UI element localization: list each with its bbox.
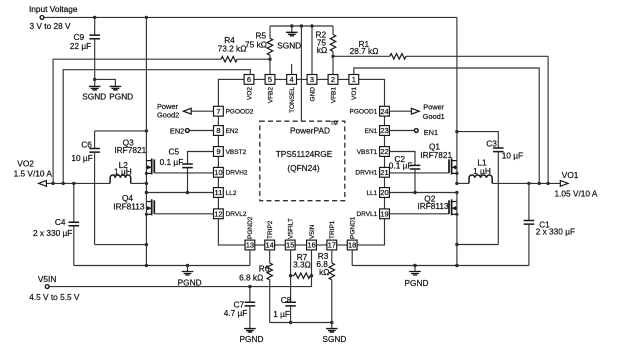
svg-text:DRVL1: DRVL1 [356,211,377,218]
capacitor C1 [524,183,575,265]
wire PGND rail right [352,265,529,267]
ground SGND (input) [82,79,106,101]
svg-text:3: 3 [310,75,314,84]
junction C4 tap [72,182,75,185]
junction LL2/VO2 line [145,182,148,185]
wire DRVH1 (pin 21) [389,172,449,174]
wire SGND rail to PowerPAD [300,26,302,121]
svg-text:VBST1: VBST1 [357,149,378,156]
junction C8/SGND line [289,321,292,324]
wire VO2 sense (pin 6) [63,70,250,184]
wire R1 to VO1 [547,56,549,183]
svg-text:TONSEL: TONSEL [289,87,296,113]
ground PGND (right rail) [405,264,429,288]
junction C5/LL2 [186,191,189,194]
node EN1 [389,128,438,137]
capacitor C6 [71,131,100,245]
capacitor C9 [70,17,100,79]
svg-text:DRVL2: DRVL2 [226,211,247,218]
junction R4 tap [51,182,54,185]
svg-text:VFB2: VFB2 [267,87,274,104]
wire LL1 (pin 20) [389,192,457,194]
svg-text:VO1: VO1 [562,170,579,180]
svg-text:8: 8 [216,126,220,135]
resistor R7 [291,250,312,279]
svg-text:1: 1 [352,75,356,84]
svg-text:11: 11 [215,188,223,197]
svg-text:75 kΩ: 75 kΩ [245,40,267,50]
junction R2/R1/VFB1 [331,55,334,58]
svg-text:4: 4 [290,75,294,84]
resistor R6 [239,250,272,323]
svg-text:1.05 V/10 A: 1.05 V/10 A [555,188,598,198]
svg-text:VO2: VO2 [246,87,253,100]
pin 5 VFB2 (top) [265,75,275,104]
transistor Q3 IRF7821 [145,158,155,175]
node VO2 terminal [14,158,53,186]
svg-text:23: 23 [380,126,388,135]
svg-text:PGND1: PGND1 [350,216,357,239]
wire input rail [44,16,457,18]
svg-text:19: 19 [380,210,388,219]
svg-text:Input Voltage: Input Voltage [29,4,78,14]
svg-text:SGND: SGND [82,92,106,102]
svg-text:EN1: EN1 [424,128,438,137]
junction R1 tap [546,182,549,185]
svg-text:5: 5 [268,75,272,84]
wire V5IN rail [49,250,311,287]
IC PowerPAD dashed box [260,121,345,201]
label Q1 [420,142,452,161]
wire DRVL1 (pin 19) [389,213,449,215]
junction R7 left [289,274,292,277]
ground PGND (input) [95,79,133,101]
svg-text:IRF7821: IRF7821 [114,145,146,155]
svg-text:7: 7 [216,107,220,116]
capacitor C8 [273,276,296,323]
pin 12 DRVL2 (left) [214,209,247,219]
pin 2 VFB1 (top) [328,75,338,104]
svg-text:EN2: EN2 [226,128,239,135]
junction SGND rail/PowerPAD [300,24,303,27]
svg-text:IRF8113: IRF8113 [113,201,145,211]
node Power Good2 [157,102,214,120]
pin 6 VO2 (top) [244,75,254,101]
junction C3/Q2 source [455,243,458,246]
pin 15 V5FILT (bottom) [285,218,295,250]
wire PGND1 (pin 18) [351,250,353,266]
pin 21 DRVH1 (right) [355,167,389,177]
junction pin1 tap [538,182,541,185]
wire SGND rail (top) [270,25,333,27]
label Q4 [113,193,145,212]
node Power Good1 [389,103,444,121]
svg-text:4.7 µF: 4.7 µF [224,308,248,318]
resistor R5 [245,26,273,75]
wire GND pin3 to rail [310,24,313,74]
svg-text:Good2: Good2 [157,111,179,120]
svg-text:1.5 V/10 A: 1.5 V/10 A [14,168,53,178]
svg-text:15: 15 [286,241,294,250]
wire VO1 sense (pin 1) [354,68,539,183]
node V5IN terminal [29,274,80,302]
wire Q3 drain [145,17,147,183]
junction Q3 source/LL2 [145,191,148,194]
pin 16 V5IN (bottom) [307,224,317,250]
label Q2 [417,194,449,211]
svg-text:C3: C3 [486,139,497,149]
wire PGND rail left [74,265,250,267]
wire C6 bottom branch [95,244,147,246]
wire VO2 sense to R4 [53,59,221,183]
svg-text:16: 16 [307,241,315,250]
junction Q2 source/PGND rail [455,264,458,267]
svg-text:PGND: PGND [109,92,133,102]
svg-text:18: 18 [348,241,356,250]
resistor R3 [316,250,334,323]
wire Q1 drain [456,17,458,183]
junction C2/LL1 [413,191,416,194]
junction C9 ground split [93,78,96,81]
pin 13 PGND2 (bottom) [245,216,255,250]
wire DRVL2 (pin 12) [154,213,213,215]
capacitor C4 [33,183,79,265]
svg-text:DRVH2: DRVH2 [226,170,248,177]
pin 20 LL1 (right) [366,188,389,198]
svg-text:DRVH1: DRVH1 [355,170,377,177]
svg-text:TM: TM [331,121,338,127]
svg-text:0.1 µF: 0.1 µF [389,161,413,171]
svg-text:3.3Ω: 3.3Ω [293,259,311,269]
junction R7 right [310,274,313,277]
svg-text:13: 13 [246,241,254,250]
svg-text:V5IN: V5IN [38,274,56,284]
junction C3/Q1 drain [455,130,458,133]
junction C1 tap [527,182,530,185]
pin 23 EN1 (right) [365,126,390,136]
svg-text:VBST2: VBST2 [226,149,247,156]
wire TONSEL stub [291,64,293,75]
pin 7 PGOOD2 (left) [214,106,254,116]
ground PGND (C7) [240,329,264,344]
pin 3 GND (top) [307,75,317,102]
ground PGND (left rail) [178,264,202,288]
svg-text:2: 2 [331,75,335,84]
junction V5IN/C7 [248,285,251,288]
svg-text:12: 12 [214,210,222,219]
junction input/Q3 drain [145,16,148,19]
svg-text:28.7 kΩ: 28.7 kΩ [350,46,379,56]
pin 8 EN2 (left) [214,126,239,136]
svg-text:VO2: VO2 [17,158,34,168]
capacitor C5 [160,147,214,193]
svg-text:kΩ: kΩ [319,267,329,277]
svg-text:C8: C8 [281,295,292,305]
svg-text:10 µF: 10 µF [71,153,92,163]
pin 19 DRVL1 (right) [356,209,389,219]
svg-text:1 µF: 1 µF [273,309,290,319]
svg-text:PGND: PGND [240,334,264,344]
svg-text:10 µF: 10 µF [502,151,523,161]
svg-text:PGND2: PGND2 [247,216,254,239]
svg-text:17: 17 [328,241,336,250]
svg-text:PGND: PGND [405,278,429,288]
svg-text:GND: GND [309,87,316,102]
pin 14 TRIP2 (bottom) [265,220,275,250]
svg-text:C5: C5 [169,147,180,157]
svg-text:9: 9 [216,147,220,156]
wire VO1 line [492,182,560,184]
IC U1 TPS51124RGE body outline [218,79,384,245]
resistor R1 [333,39,548,59]
svg-text:EN2: EN2 [170,127,184,136]
capacitor C3 [457,132,523,245]
svg-text:SGND: SGND [277,40,301,50]
wire SGND bottom line [270,322,332,324]
svg-text:SGND: SGND [322,334,346,344]
svg-text:C4: C4 [55,217,66,227]
svg-text:IRF7821: IRF7821 [420,150,452,160]
svg-text:6: 6 [247,75,251,84]
wire VO2 line [47,182,110,184]
svg-text:TPS51124RGE: TPS51124RGE [276,149,333,159]
svg-text:21: 21 [380,168,388,177]
svg-text:0.1 µF: 0.1 µF [160,157,184,167]
capacitor C7 [224,287,256,329]
svg-text:14: 14 [266,241,274,250]
svg-text:Good1: Good1 [423,112,445,121]
svg-text:22 µF: 22 µF [70,41,91,51]
pin 22 VBST1 (right) [357,147,390,157]
transistor Q2 IRF8113 [449,199,459,216]
wire C6 top branch [95,130,147,132]
pin 11 LL2 (left) [214,188,237,198]
svg-text:20: 20 [380,188,388,197]
wire C3 bottom branch [457,244,498,246]
ground SGND (bottom) [322,321,346,344]
svg-text:4.5 V to 5.5 V: 4.5 V to 5.5 V [29,292,80,302]
pin 17 TRIP1 (bottom) [327,220,337,250]
junction Q1 source/LL1 [455,191,458,194]
svg-text:22: 22 [380,147,388,156]
svg-text:6.8 kΩ: 6.8 kΩ [239,272,263,282]
svg-text:VFB1: VFB1 [330,87,337,104]
svg-text:V5FILT: V5FILT [288,218,295,239]
inductor L1 [457,158,492,184]
node Input Voltage terminal [29,4,78,31]
pin 9 VBST2 (left) [214,147,247,157]
wire LL2 (pin 11) [146,192,213,194]
svg-text:TRIP2: TRIP2 [267,220,274,239]
svg-text:Power: Power [423,103,444,112]
resistor R2 [316,26,336,75]
svg-text:(QFN24): (QFN24) [287,163,320,173]
pin 24 PGOOD1 (right) [349,106,389,116]
svg-text:2 x 330 µF: 2 x 330 µF [536,227,575,237]
svg-text:VO1: VO1 [351,87,358,100]
svg-text:PGOOD2: PGOOD2 [226,109,254,116]
transistor Q4 IRF8113 [145,199,155,216]
transistor Q1 IRF7821 [449,158,459,175]
node EN2 [170,127,214,136]
node VO1 terminal [555,170,598,198]
svg-text:3 V to 28 V: 3 V to 28 V [30,21,72,31]
svg-text:C6: C6 [81,140,92,150]
svg-text:2 x 330 µF: 2 x 330 µF [33,228,72,238]
pin 4 TONSEL (top) [287,75,297,113]
label Q3 [114,137,146,154]
junction C6/Q4 source [145,243,148,246]
svg-text:EN1: EN1 [365,128,378,135]
junction R4/R5/VFB2 [268,58,271,61]
svg-text:24: 24 [380,107,388,116]
wire Q2 column [456,193,458,266]
svg-text:TRIP1: TRIP1 [329,220,336,239]
inductor L2 [110,160,146,183]
wire Q4 drain-source column [145,183,147,265]
capacitor C2 [389,152,421,193]
junction LL1/VO1 line [455,182,458,185]
junction C6/Q3 drain [145,129,148,132]
pin 1 VO1 (top) [349,75,359,101]
svg-text:V5IN: V5IN [309,224,316,239]
svg-text:IRF8113: IRF8113 [417,201,449,211]
svg-text:LL1: LL1 [366,190,377,197]
svg-text:73.2 kΩ: 73.2 kΩ [218,44,247,54]
resistor R4 [218,35,270,62]
IC name labels [276,121,338,173]
pin 10 DRVH2 (left) [214,167,248,177]
pin 18 PGND1 (bottom) [347,216,357,250]
svg-text:PowerPAD: PowerPAD [290,126,330,136]
wire DRVH2 (pin 10) [154,172,213,174]
svg-text:1 µH: 1 µH [473,166,491,176]
svg-text:PGOOD1: PGOOD1 [349,109,377,116]
svg-text:10: 10 [214,168,222,177]
svg-text:1 µH: 1 µH [114,167,132,177]
wire PGND2 (pin 13) [249,250,251,266]
ground SGND (top rail) [277,24,301,50]
junction Q4 source/PGND rail [145,264,148,267]
junction input/C9 [93,16,96,19]
svg-text:LL2: LL2 [226,190,237,197]
svg-text:kΩ: kΩ [317,45,327,55]
junction pin6 tap [62,182,65,185]
